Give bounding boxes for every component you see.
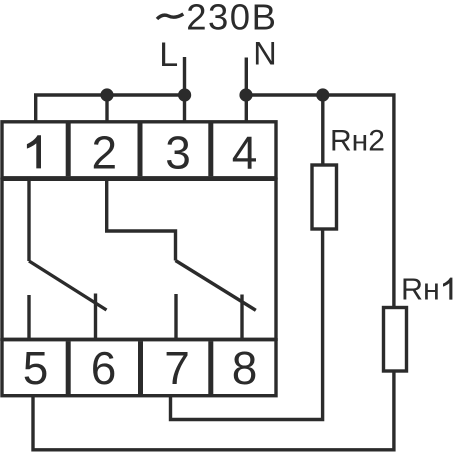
terminal number 1: [27, 135, 41, 168]
fixed contact stub above terminal 6: [94, 294, 97, 342]
svg-text:7: 7: [164, 342, 190, 394]
fixed contact stub above terminal 5: [27, 295, 30, 341]
wire: Rn2 bottom to terminal 7: [171, 229, 323, 420]
divider terminals 6|7: [138, 341, 143, 394]
fixed contact stub above terminal 7: [174, 294, 177, 341]
junction dot on L lead: [178, 88, 191, 101]
divider terminals 5|6: [66, 341, 71, 394]
wire: L lead down to terminal 3: [183, 57, 186, 124]
wire: L bus to terminal 1: [36, 95, 185, 124]
divider terminals 7|8: [208, 341, 213, 394]
svg-text:5: 5: [23, 342, 49, 394]
svg-text:N: N: [253, 36, 276, 72]
fixed contact stub above terminal 8: [240, 295, 243, 342]
terminal block bottom row 5-8: [2, 340, 276, 396]
junction dot on terminal 2 branch: [100, 88, 113, 101]
terminal block top row 1-4: [2, 122, 276, 178]
resistor Rn1: [384, 308, 407, 372]
contact K1.2 switch blade: [176, 261, 256, 311]
svg-text:4: 4: [232, 126, 258, 178]
junction dot on N lead: [239, 88, 252, 101]
svg-text:230В: 230В: [186, 0, 277, 38]
contact K1.1 pole wire from terminal 1: [27, 177, 30, 261]
label ~230V supply: tilde: [157, 14, 183, 19]
divider terminals 3|4: [208, 123, 213, 176]
svg-text:L: L: [159, 36, 178, 74]
resistor Rn2: [312, 165, 337, 229]
wire: N lead down to terminal 4: [245, 58, 248, 125]
wire: branch from L bus down to terminal 2: [105, 95, 108, 124]
svg-text:8: 8: [232, 342, 258, 394]
junction dot at Rn2 branch: [316, 88, 329, 101]
svg-text:3: 3: [165, 126, 191, 178]
divider terminals 2|3: [138, 123, 143, 176]
contact K1.2 pole wire from terminal 2: [107, 177, 176, 261]
svg-text:Rн: Rн: [401, 273, 440, 307]
device body outline: [2, 179, 276, 339]
wire: Rn2 branch down: [321, 95, 324, 166]
divider terminals 1|2: [66, 123, 71, 176]
svg-text:6: 6: [91, 342, 117, 394]
svg-text:Rн2: Rн2: [330, 125, 385, 158]
wire: Rn1 bottom to terminal 5: [33, 371, 394, 450]
svg-text:2: 2: [92, 126, 118, 178]
contact K1.1 switch blade: [29, 261, 107, 310]
wire: N bus to right side down to Rn1: [246, 95, 394, 307]
